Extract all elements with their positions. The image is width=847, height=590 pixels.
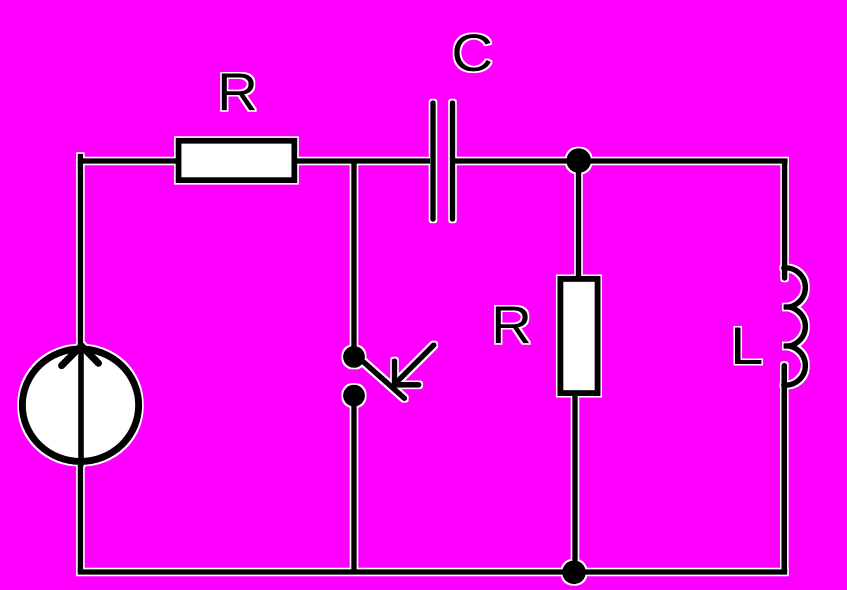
switch arrow head horizontal barb [395, 382, 419, 388]
svg-text:C: C [451, 24, 493, 83]
current source arrow shaft (vertical through circle) [78, 346, 84, 466]
wire: branch from top junction down to resistor R (vertical) [576, 161, 582, 279]
resistor R (horizontal, top left) [179, 141, 295, 181]
switch upper contact dot [343, 346, 365, 368]
svg-text:R: R [491, 296, 532, 355]
svg-text:R: R [217, 63, 258, 122]
inductor L coil (three arcs) [784, 268, 806, 385]
capacitor C left plate [430, 103, 436, 219]
svg-text:L: L [730, 317, 764, 376]
switch lever [364, 362, 405, 398]
wire: top horizontal segment between resistor R and capacitor C [297, 158, 430, 164]
current source arrow right barb [81, 346, 98, 364]
wire: left vertical rail from top-left corner down to bottom rail [78, 161, 84, 572]
wire: bottom horizontal rail [78, 569, 788, 575]
junction dot: bottom node on bottom rail [562, 560, 586, 584]
wire: right vertical segment from top-right corner down to inductor L [782, 159, 788, 279]
wire: top horizontal segment from capacitor C across junction to top-right corner [455, 158, 788, 164]
wire: middle branch from top rail down to switch upper contact [351, 161, 357, 357]
switch arrow head vertical barb [392, 361, 398, 384]
current source arrow left barb [62, 346, 82, 366]
current source circle [22, 349, 138, 462]
wire: from vertical resistor bottom down to bottom junction [572, 396, 578, 572]
wire: right vertical segment from inductor L down to bottom-right corner [781, 366, 787, 573]
wire: top-left horizontal segment from left rail to resistor R [80, 157, 178, 162]
capacitor C right plate [450, 103, 456, 219]
switch lower contact dot [343, 385, 365, 407]
wire: middle branch from switch lower contact down to bottom rail [351, 396, 357, 572]
switch closing-direction arrow shaft [395, 345, 434, 384]
resistor R (vertical, middle right) [560, 279, 597, 393]
junction dot: top node between C, R and L [566, 148, 591, 173]
